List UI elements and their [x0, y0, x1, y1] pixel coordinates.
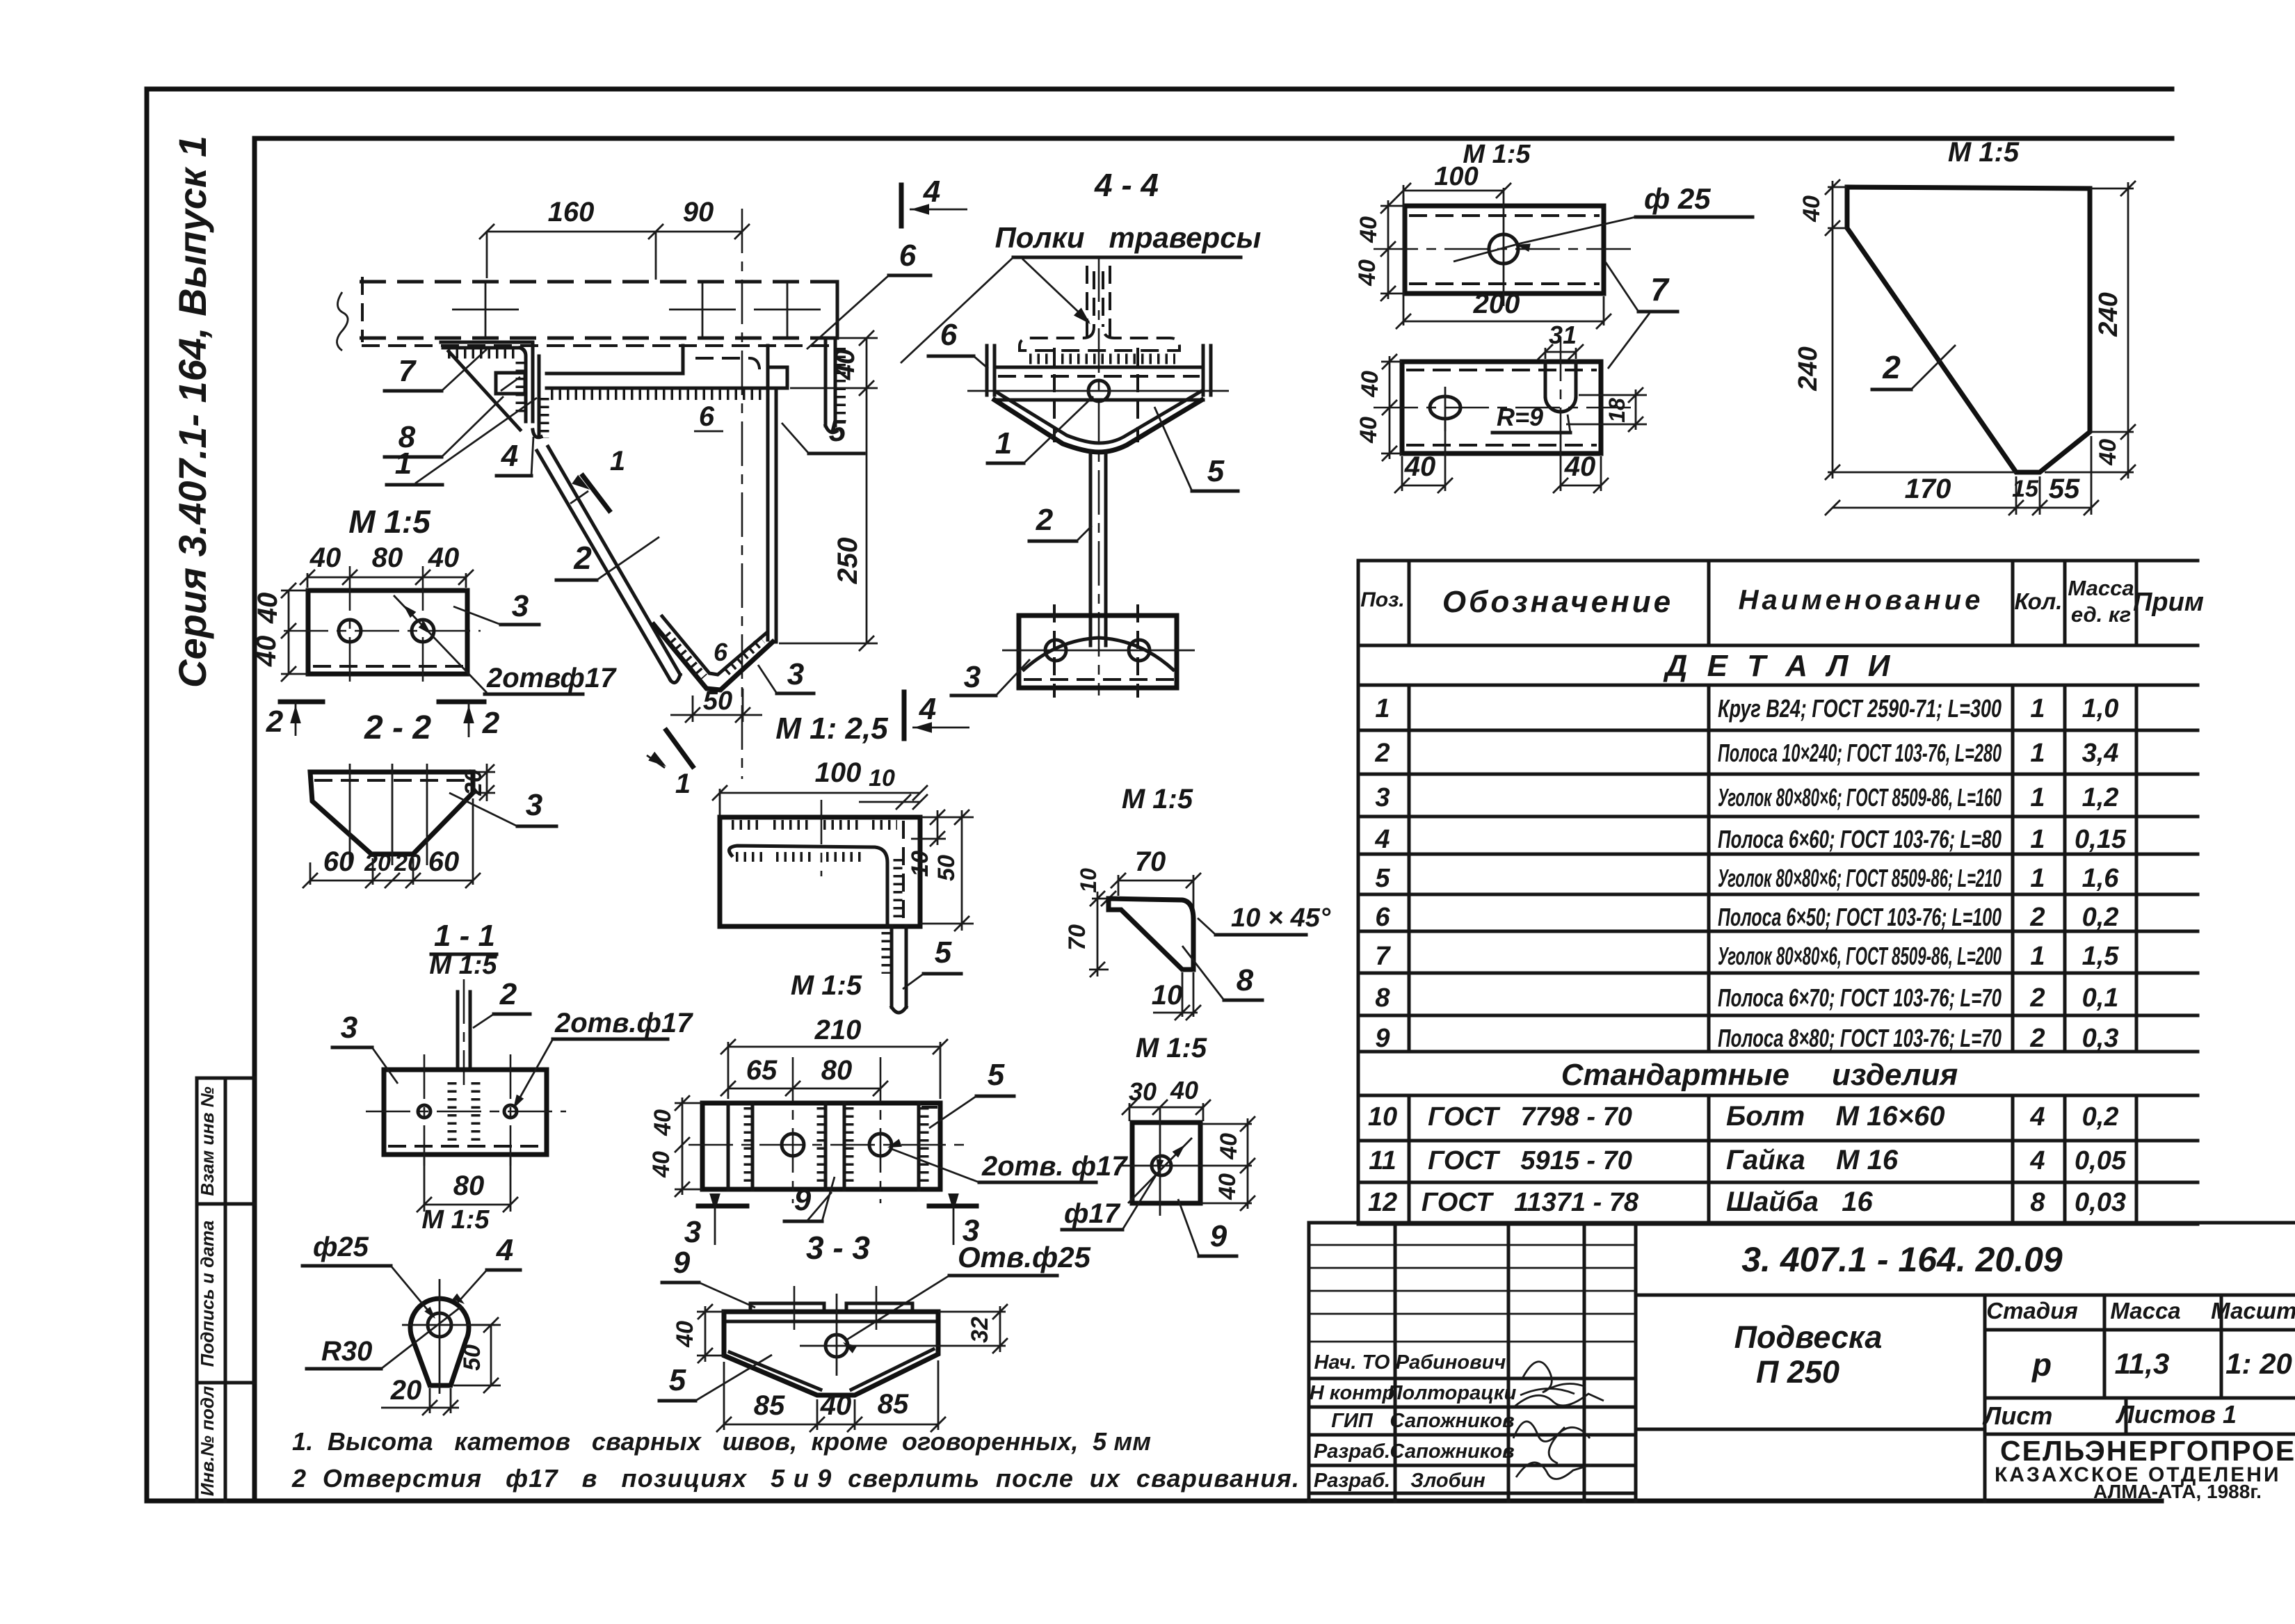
svg-text:10: 10	[1368, 1102, 1397, 1132]
part6 folded strip edge	[729, 846, 887, 925]
svg-text:10: 10	[907, 851, 933, 877]
dimension 50 under V	[692, 696, 694, 722]
angle 7: horizontal leg with weld ticks	[441, 341, 530, 344]
svg-text:90: 90	[683, 197, 714, 227]
svg-text:8: 8	[1375, 983, 1390, 1013]
svg-text:60: 60	[323, 846, 355, 877]
svg-text:М 1:5: М 1:5	[429, 951, 497, 980]
svg-text:240: 240	[1794, 346, 1823, 391]
plate 3 front view in 1-1	[384, 1070, 547, 1155]
svg-text:ГОСТ 5915 - 70: ГОСТ 5915 - 70	[1428, 1146, 1632, 1175]
svg-text:Масса: Масса	[2110, 1298, 2180, 1324]
svg-text:1. Высота катетов сварных: 1. Высота катетов сварных швов, кроме ог…	[292, 1427, 1151, 1456]
svg-text:11: 11	[1369, 1146, 1396, 1175]
svg-text:3: 3	[684, 1215, 701, 1249]
210 plate left dims 40 40	[675, 1102, 702, 1104]
part9 right dims 40 40	[1200, 1123, 1252, 1125]
svg-text:М 1:5: М 1:5	[1948, 137, 2020, 168]
svg-text:1: 20: 1: 20	[2225, 1347, 2292, 1380]
svg-text:9: 9	[673, 1246, 691, 1280]
svg-text:Сапожников: Сапожников	[1390, 1410, 1514, 1432]
svg-text:1: 1	[2030, 825, 2045, 854]
svg-text:40: 40	[1355, 216, 1382, 243]
svg-text:5: 5	[829, 414, 846, 448]
rod 1: diagonal round bar	[537, 451, 670, 680]
strip 6 end plates	[985, 346, 989, 395]
svg-text:40: 40	[1798, 195, 1825, 223]
svg-text:30: 30	[1129, 1077, 1157, 1106]
svg-text:4: 4	[2029, 1146, 2045, 1175]
svg-text:20: 20	[364, 850, 391, 876]
svg-text:5: 5	[935, 935, 952, 970]
svg-text:Круг В24; ГОСТ 2590-71; L=300: Круг В24; ГОСТ 2590-71; L=300	[1718, 694, 2002, 723]
svg-text:2 - 2: 2 - 2	[364, 709, 431, 746]
svg-text:Разраб.: Разраб.	[1314, 1470, 1390, 1492]
svg-text:Полоса 6×70; ГОСТ 103-76; L=70: Полоса 6×70; ГОСТ 103-76; L=70	[1718, 983, 2002, 1012]
svg-text:ф17: ф17	[1064, 1198, 1121, 1229]
svg-text:40: 40	[672, 1321, 698, 1348]
3-3 plate part5 flange	[724, 1310, 938, 1315]
svg-text:1: 1	[2030, 864, 2045, 893]
svg-text:АЛМА-АТА, 1988г.: АЛМА-АТА, 1988г.	[2093, 1481, 2262, 1502]
svg-text:Масшта: Масшта	[2211, 1298, 2295, 1324]
part6 weld tick rows	[732, 820, 762, 830]
svg-text:20: 20	[394, 850, 421, 876]
part2 outline	[1847, 187, 2090, 472]
part7 lower left dims 40 40	[1389, 356, 1391, 459]
part6 centerline	[821, 800, 823, 876]
svg-text:250: 250	[832, 538, 863, 585]
svg-text:40: 40	[1170, 1076, 1198, 1104]
3-3 left dim 40	[697, 1311, 724, 1313]
svg-text:70: 70	[1064, 924, 1090, 951]
svg-text:9: 9	[1210, 1219, 1227, 1253]
svg-text:1: 1	[1375, 694, 1390, 723]
svg-text:М 1: 2,5: М 1: 2,5	[775, 711, 888, 746]
svg-text:2: 2	[266, 705, 284, 739]
svg-text:50: 50	[703, 686, 732, 716]
2-2 trapezoid outline	[310, 772, 473, 854]
svg-text:40: 40	[1216, 1133, 1242, 1160]
svg-text:1,0: 1,0	[2082, 694, 2119, 723]
svg-text:0,2: 0,2	[2082, 1102, 2119, 1132]
svg-text:4: 4	[496, 1233, 513, 1267]
svg-text:9: 9	[1375, 1024, 1390, 1053]
svg-text:3,4: 3,4	[2082, 739, 2119, 768]
svg-text:4: 4	[923, 175, 940, 209]
svg-text:40: 40	[1355, 417, 1382, 444]
svg-text:М 1:5: М 1:5	[1122, 784, 1193, 814]
svg-text:18: 18	[1604, 398, 1629, 423]
rod part 2 below	[1089, 452, 1093, 645]
svg-text:Поз.: Поз.	[1360, 588, 1405, 611]
svg-text:20: 20	[390, 1375, 422, 1406]
svg-text:1: 1	[995, 426, 1012, 460]
svg-text:Сапожников: Сапожников	[1390, 1440, 1514, 1463]
part2 left dims 40 240	[1828, 186, 1847, 188]
horizontal centerline 4-4	[967, 390, 1229, 392]
svg-text:5: 5	[1207, 454, 1225, 488]
svg-text:7: 7	[1375, 942, 1391, 971]
part7 upper centerlines	[1374, 248, 1631, 250]
svg-text:2: 2	[2029, 1024, 2045, 1053]
svg-text:Злобин: Злобин	[1410, 1470, 1485, 1492]
svg-text:Болт М 16×60: Болт М 16×60	[1726, 1101, 1944, 1132]
svg-text:40: 40	[251, 636, 282, 668]
svg-text:1 - 1: 1 - 1	[434, 919, 495, 953]
section mark 1 lower	[666, 730, 693, 766]
svg-text:40: 40	[309, 542, 341, 573]
svg-text:2: 2	[499, 977, 517, 1011]
svg-text:200: 200	[1473, 289, 1520, 319]
part5 leg below part6	[890, 926, 894, 1007]
svg-text:2: 2	[1036, 503, 1054, 537]
svg-text:1: 1	[395, 447, 412, 481]
section marks 3-3	[698, 1204, 747, 1209]
svg-text:Инв.№ подл: Инв.№ подл	[197, 1386, 218, 1496]
svg-text:3 - 3: 3 - 3	[806, 1230, 870, 1266]
hidden traverse T profile	[1086, 266, 1088, 339]
part7 slot	[1544, 362, 1547, 396]
svg-text:4 - 4: 4 - 4	[1094, 167, 1159, 203]
angle 5 end strips	[727, 1103, 730, 1189]
svg-text:3: 3	[787, 657, 804, 691]
svg-text:32: 32	[967, 1317, 993, 1343]
dim 18	[1579, 394, 1647, 396]
svg-text:2: 2	[1882, 349, 1901, 385]
svg-text:2отв.ф17: 2отв.ф17	[554, 1008, 693, 1038]
svg-text:50: 50	[933, 855, 960, 881]
svg-text:П 250: П 250	[1756, 1354, 1839, 1390]
svg-text:210: 210	[814, 1015, 862, 1045]
svg-text:40: 40	[2095, 439, 2121, 466]
svg-text:55: 55	[2049, 474, 2080, 504]
svg-text:5: 5	[1375, 864, 1390, 893]
part6 plate rectangle	[720, 817, 920, 926]
svg-text:Взам инв №: Взам инв №	[197, 1086, 218, 1196]
dimension 40 and 250 right	[866, 338, 868, 643]
svg-text:3: 3	[1375, 783, 1390, 812]
svg-text:9: 9	[794, 1183, 812, 1217]
svg-text:1,6: 1,6	[2082, 864, 2120, 893]
svg-text:160: 160	[548, 197, 595, 227]
svg-text:10: 10	[1152, 980, 1183, 1011]
svg-text:40: 40	[830, 349, 860, 381]
section mark 1 upper	[583, 476, 609, 510]
part9 square	[1132, 1123, 1200, 1203]
svg-text:р: р	[2031, 1346, 2052, 1383]
small step plate	[768, 367, 787, 388]
svg-text:М 1:5: М 1:5	[348, 504, 431, 540]
svg-text:60: 60	[428, 846, 460, 877]
2-2 bottom dims 60 20 20 60	[309, 862, 312, 885]
svg-text:8: 8	[1237, 963, 1254, 997]
svg-text:Полоса 6×50; ГОСТ 103-76; L=10: Полоса 6×50; ГОСТ 103-76; L=100	[1718, 903, 2002, 931]
svg-text:70: 70	[1135, 846, 1166, 877]
gusset diagonal edge	[449, 351, 520, 430]
strip 6: horizontal backing bar	[547, 372, 683, 376]
dim 80 (1-1)	[424, 1157, 426, 1212]
svg-text:40: 40	[252, 593, 283, 625]
svg-text:6: 6	[940, 318, 958, 352]
svg-text:2: 2	[1374, 739, 1390, 768]
svg-text:3: 3	[526, 788, 542, 822]
svg-text:R=9: R=9	[1497, 403, 1543, 431]
3-3 top plates part 9	[750, 1303, 824, 1312]
rod hole circle	[1088, 380, 1109, 401]
svg-text:R30: R30	[321, 1336, 372, 1367]
svg-text:8: 8	[2030, 1188, 2045, 1217]
main view: traverse cross marks	[452, 309, 519, 311]
svg-text:40: 40	[1357, 371, 1383, 398]
part6 bend dashed line	[902, 821, 905, 924]
svg-text:3: 3	[512, 589, 529, 623]
inner border frame	[255, 136, 2172, 141]
part6 right dims 10 50	[920, 817, 974, 819]
svg-text:1: 1	[610, 446, 625, 476]
section mark 4 lower	[902, 692, 907, 739]
teardrop hole	[428, 1313, 451, 1337]
svg-text:Масса: Масса	[2068, 576, 2134, 600]
svg-text:40: 40	[1354, 259, 1380, 287]
plate 4 small rectangle	[496, 373, 525, 394]
part7 left dims 40 40	[1387, 200, 1390, 299]
angle 7: vertical leg	[520, 348, 526, 421]
svg-text:Полки траверсы: Полки траверсы	[995, 221, 1262, 254]
svg-text:40: 40	[1564, 451, 1596, 482]
section marks 2-2	[280, 700, 323, 705]
svg-text:6: 6	[1375, 903, 1390, 932]
svg-text:Наименование: Наименование	[1739, 585, 1984, 616]
3-3 top plate axes	[794, 1286, 796, 1330]
svg-text:Полоса 8×80; ГОСТ 103-76; L=70: Полоса 8×80; ГОСТ 103-76; L=70	[1718, 1024, 2002, 1052]
bottom bracket plate of 4-4	[1019, 616, 1177, 688]
main view: centerline through suspension axis	[741, 209, 743, 779]
dim 20 (teardrop)	[429, 1388, 431, 1413]
svg-text:4: 4	[2029, 1102, 2045, 1132]
svg-text:40: 40	[1214, 1173, 1241, 1200]
svg-text:1: 1	[675, 769, 691, 799]
svg-text:М 1:5: М 1:5	[421, 1205, 490, 1235]
3-3 hole	[826, 1335, 848, 1357]
svg-text:Обозначение: Обозначение	[1442, 585, 1673, 619]
part9 hole	[1152, 1156, 1171, 1175]
svg-text:Рабинович: Рабинович	[1396, 1351, 1506, 1374]
svg-text:ГОСТ 11371 - 78: ГОСТ 11371 - 78	[1422, 1188, 1639, 1217]
rod 2 in 1-1	[456, 992, 460, 1070]
svg-text:1,5: 1,5	[2082, 942, 2120, 971]
specification table grid	[1358, 559, 2198, 563]
svg-text:ф 25: ф 25	[1644, 182, 1711, 215]
svg-text:40: 40	[648, 1151, 675, 1178]
V bottom: angle 3 with strip 6	[654, 625, 773, 690]
svg-text:ф25: ф25	[313, 1232, 369, 1262]
svg-text:2: 2	[2029, 903, 2045, 932]
svg-text:2отвф17: 2отвф17	[486, 663, 617, 693]
bolt centerlines	[1053, 348, 1056, 442]
2-2 right dim 20	[473, 771, 495, 773]
left stamp boxes	[195, 1078, 199, 1501]
svg-text:0,05: 0,05	[2075, 1146, 2127, 1175]
part7 oval hole	[1430, 396, 1460, 419]
svg-text:Листов 1: Листов 1	[2115, 1400, 2237, 1429]
svg-text:3. 407.1 - 164. 20.09: 3. 407.1 - 164. 20.09	[1741, 1240, 2063, 1279]
svg-text:40: 40	[820, 1390, 852, 1421]
svg-text:80: 80	[372, 542, 403, 573]
svg-text:Уголок 80×80×6; ГОСТ 8509-86;: Уголок 80×80×6; ГОСТ 8509-86; L=210	[1718, 864, 2002, 892]
svg-text:11,3: 11,3	[2115, 1347, 2170, 1380]
part7 lower bottom dims 40 40	[1401, 456, 1403, 491]
svg-text:1: 1	[2030, 694, 2045, 723]
svg-text:ед. кг: ед. кг	[2071, 602, 2131, 627]
svg-text:40: 40	[650, 1109, 676, 1136]
svg-text:7: 7	[1650, 271, 1670, 307]
svg-text:Нач. ТО: Нач. ТО	[1314, 1351, 1390, 1374]
svg-text:Подвеска: Подвеска	[1734, 1319, 1883, 1355]
svg-text:Прим: Прим	[2133, 588, 2204, 617]
centerline vertical 4-4	[1098, 257, 1100, 696]
svg-text:Шайба 16: Шайба 16	[1726, 1187, 1873, 1217]
210 plate holes and centerlines	[688, 1144, 967, 1146]
V bracket of part 5	[994, 400, 1202, 452]
strip 2: vertical strip down to V	[766, 388, 770, 640]
svg-text:40: 40	[1404, 451, 1436, 482]
3-3 body V	[724, 1312, 938, 1395]
svg-text:240: 240	[2094, 292, 2123, 337]
plate 3 holes	[339, 620, 361, 642]
svg-text:80: 80	[821, 1055, 853, 1086]
3-3 bottom dims 85 40 85	[723, 1362, 725, 1430]
svg-text:4: 4	[501, 439, 518, 473]
svg-text:100: 100	[815, 757, 862, 788]
210 plate rectangle	[702, 1103, 940, 1189]
plate 3 left dims 40 40	[288, 590, 290, 674]
teardrop crosshair	[439, 1279, 441, 1394]
svg-text:6: 6	[714, 638, 728, 666]
signatures squiggles	[1515, 1362, 1604, 1406]
svg-text:ГОСТ 7798 - 70: ГОСТ 7798 - 70	[1428, 1102, 1632, 1132]
part7 upper rectangle	[1405, 206, 1604, 294]
svg-text:Д Е Т А Л И: Д Е Т А Л И	[1663, 649, 1896, 683]
part 9 middle strip	[824, 1103, 828, 1189]
svg-text:3: 3	[341, 1011, 357, 1045]
svg-text:3: 3	[964, 660, 981, 694]
part2 right dims 240 40	[2090, 188, 2134, 190]
svg-text:Лист: Лист	[1982, 1401, 2053, 1430]
plate 3 centerlines	[284, 630, 481, 632]
svg-text:Стадия: Стадия	[1986, 1298, 2078, 1324]
svg-text:Серия 3.407.1- 164, Выпуск 1: Серия 3.407.1- 164, Выпуск 1	[170, 136, 214, 688]
svg-text:ГИП: ГИП	[1331, 1410, 1374, 1432]
svg-text:20: 20	[460, 769, 487, 796]
svg-text:2отв. ф17: 2отв. ф17	[981, 1151, 1128, 1182]
svg-text:2: 2	[2029, 983, 2045, 1013]
part7 upper hole	[1489, 234, 1518, 264]
svg-text:Уголок 80×80×6, ГОСТ 8509-86,: Уголок 80×80×6, ГОСТ 8509-86, L=200	[1718, 942, 2002, 970]
svg-text:10: 10	[1076, 868, 1101, 893]
main view: traverse hidden band	[360, 280, 837, 284]
svg-text:1,2: 1,2	[2082, 783, 2119, 812]
svg-text:Н контр: Н контр	[1310, 1382, 1394, 1404]
svg-text:85: 85	[754, 1390, 785, 1421]
svg-text:Подпись и дата: Подпись и дата	[197, 1221, 218, 1367]
svg-text:80: 80	[453, 1171, 485, 1201]
part8 shape	[1109, 899, 1193, 970]
svg-text:Разраб.: Разраб.	[1314, 1440, 1390, 1463]
plate 8 strip	[538, 356, 541, 437]
svg-text:Отв.ф25: Отв.ф25	[958, 1241, 1091, 1273]
part7 lower rectangle	[1402, 362, 1601, 453]
svg-text:6: 6	[899, 239, 917, 273]
part2 bottom dims 170 15 55	[2015, 476, 2018, 515]
svg-text:10 × 45°: 10 × 45°	[1231, 903, 1331, 933]
svg-text:5: 5	[669, 1363, 686, 1397]
svg-text:Полоса 6×60; ГОСТ 103-76; L=80: Полоса 6×60; ГОСТ 103-76; L=80	[1718, 825, 2002, 853]
svg-text:5: 5	[988, 1058, 1005, 1092]
2-2 centerlines	[349, 764, 351, 865]
svg-text:Кол.: Кол.	[2015, 588, 2063, 614]
svg-text:4: 4	[1374, 825, 1390, 854]
svg-text:2: 2	[573, 540, 592, 576]
svg-text:6: 6	[699, 401, 715, 432]
svg-text:0,3: 0,3	[2082, 1024, 2119, 1053]
outer border frame	[147, 87, 2172, 92]
svg-text:Уголок 80×80×6; ГОСТ 8509-86,: Уголок 80×80×6; ГОСТ 8509-86, L=160	[1718, 783, 2002, 812]
angle 5: short vertical leg	[824, 338, 828, 426]
svg-text:170: 170	[1905, 474, 1951, 504]
svg-text:85: 85	[878, 1389, 909, 1420]
svg-text:2 Отверстия ф17 в позиц: 2 Отверстия ф17 в позициях 5 и 9 сверлит…	[291, 1464, 1299, 1493]
svg-text:М 1:5: М 1:5	[1136, 1033, 1207, 1063]
svg-text:Полоса 10×240; ГОСТ 103-76, L=: Полоса 10×240; ГОСТ 103-76, L=280	[1718, 739, 2002, 767]
svg-text:7: 7	[398, 354, 417, 388]
svg-text:Полторацки: Полторацки	[1388, 1382, 1517, 1404]
dim 70 left (part8)	[1097, 892, 1099, 976]
svg-text:4: 4	[919, 692, 936, 726]
main view: break mark	[337, 292, 348, 351]
svg-text:12: 12	[1368, 1188, 1397, 1217]
svg-text:0,03: 0,03	[2075, 1188, 2126, 1217]
plate 3 rectangle	[308, 590, 467, 674]
svg-text:65: 65	[746, 1055, 778, 1086]
svg-text:1: 1	[2030, 739, 2045, 768]
svg-text:40: 40	[428, 542, 460, 573]
title block grid	[1309, 1221, 2295, 1225]
svg-text:М 1:5: М 1:5	[791, 970, 862, 1001]
plate 3 top dims 40 80 40	[307, 577, 466, 579]
svg-text:Стандартные изделия: Стандартные изделия	[1561, 1058, 1958, 1092]
teardrop outline	[410, 1299, 469, 1385]
svg-text:100: 100	[1434, 162, 1478, 191]
dim 50 (teardrop)	[470, 1324, 501, 1326]
svg-text:50: 50	[459, 1344, 485, 1371]
3-3 right dim 32	[938, 1311, 1006, 1313]
part7 lower centerline	[1374, 407, 1631, 409]
svg-text:0,2: 0,2	[2082, 903, 2119, 932]
svg-text:1: 1	[2030, 942, 2045, 971]
svg-text:10: 10	[869, 765, 895, 791]
svg-text:0,15: 0,15	[2075, 825, 2127, 854]
plate at right under band	[682, 346, 685, 373]
svg-text:0,1: 0,1	[2082, 983, 2119, 1013]
svg-text:15: 15	[2012, 476, 2039, 502]
bracket top plate (part 5 flanges)	[994, 366, 1203, 369]
svg-text:Гайка М 16: Гайка М 16	[1726, 1145, 1899, 1175]
section mark 4 top	[899, 185, 904, 226]
svg-text:СЕЛЬЭНЕРГОПРОЕК: СЕЛЬЭНЕРГОПРОЕК	[2000, 1435, 2295, 1467]
svg-text:2: 2	[482, 706, 500, 740]
svg-text:1: 1	[2030, 783, 2045, 812]
